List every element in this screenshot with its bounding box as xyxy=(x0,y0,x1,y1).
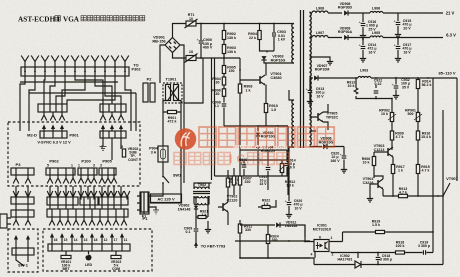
wire C911 branch xyxy=(267,150,269,190)
svg-text:RB-156: RB-156 xyxy=(152,40,165,44)
svg-text:330: 330 xyxy=(272,238,278,242)
capacitor C908 0.1 xyxy=(222,104,227,106)
transistor VT902 C2120 xyxy=(223,202,228,212)
row2 pin arrows group a xyxy=(13,191,31,200)
svg-text:17: 17 xyxy=(114,238,118,242)
junction dot VD910 xyxy=(257,125,259,127)
connector P1 header xyxy=(140,192,149,214)
label VD902 1N4148 xyxy=(178,204,191,212)
ground VT904 emitter xyxy=(367,196,373,202)
svg-text:LED: LED xyxy=(85,263,93,267)
svg-text:15.4 k: 15.4 k xyxy=(421,135,431,139)
label R906 130 xyxy=(212,89,221,97)
wire feedback winding ends xyxy=(289,90,294,195)
wire F1 to switch xyxy=(148,192,163,210)
label C932 100u 35V xyxy=(401,78,410,89)
wire C918 stub xyxy=(377,253,379,265)
connector P903 pin arrows xyxy=(101,125,123,132)
diode VD906 RGP10G xyxy=(323,144,327,149)
resistor R909 4.7k xyxy=(390,131,393,140)
dashed enclosure monitor board xyxy=(8,122,140,186)
label C917 470u 16V xyxy=(402,43,411,54)
svg-text:56.2 k: 56.2 k xyxy=(422,83,432,87)
resistor R924 330 xyxy=(266,235,269,244)
wire R925 column xyxy=(233,168,235,195)
svg-text:6: 6 xyxy=(319,236,321,240)
svg-text:1.5 k: 1.5 k xyxy=(372,223,380,227)
label VR103 5k COM xyxy=(111,260,122,271)
optocoupler internals xyxy=(316,242,328,250)
capacitor C916 1000u 25V xyxy=(359,20,366,26)
label R908 1k xyxy=(244,85,253,93)
transformer T901 secondary winding xyxy=(310,12,312,145)
ground under C920 xyxy=(341,167,347,173)
wire AC 220V line xyxy=(150,192,181,203)
wire R921 links xyxy=(196,216,208,218)
capacitor C932 100u 35V xyxy=(392,82,399,88)
capacitor C913 100u 16V xyxy=(306,87,313,93)
svg-text:TIP32C: TIP32C xyxy=(326,115,339,119)
label R916 15.4k xyxy=(421,132,431,140)
label IC902 HA17431 xyxy=(338,254,353,262)
wire R916 drop xyxy=(417,130,419,160)
wire VT905 connections xyxy=(310,104,329,130)
resistor R916 15.4k xyxy=(416,131,419,140)
svg-text:10: 10 xyxy=(189,50,193,54)
wire RP912 branch xyxy=(281,160,283,176)
svg-text:P302: P302 xyxy=(132,68,141,72)
wire R915 drop xyxy=(417,160,419,196)
svg-text:MCT3201X: MCT3201X xyxy=(313,227,332,231)
RP902 wiper arrow xyxy=(388,114,396,120)
svg-text:L907: L907 xyxy=(316,31,324,35)
resistor R904b 130 xyxy=(222,77,225,85)
capacitor C920 22u 160V xyxy=(340,152,347,158)
label R921 1k xyxy=(200,210,208,218)
wire R902 chain xyxy=(223,24,225,59)
label RP912 1.3k xyxy=(285,180,296,188)
svg-text:P901: P901 xyxy=(69,133,79,138)
wire snubber xyxy=(260,24,275,53)
potentiometer RP912 1.3k xyxy=(280,164,283,173)
svg-text:400 V: 400 V xyxy=(203,46,213,50)
label R922 1k xyxy=(262,199,270,207)
svg-text:P3: P3 xyxy=(16,162,22,167)
label VD908 RGP30D xyxy=(338,2,353,10)
callout box AC 220 V xyxy=(151,194,182,203)
svg-text:12: 12 xyxy=(104,238,108,242)
svg-text:16 V: 16 V xyxy=(316,94,324,98)
inductor L908 xyxy=(312,11,328,13)
wire P1 pins xyxy=(137,192,144,214)
wire DC+ rail xyxy=(173,24,295,38)
ground under C916 xyxy=(360,33,366,39)
svg-text:33: 33 xyxy=(228,180,232,184)
connector header right xyxy=(100,104,126,112)
watermark dzsc logo and text xyxy=(174,127,334,166)
wire R911 branch xyxy=(235,220,310,258)
capacitor C918 3300p xyxy=(376,257,381,259)
wire primary return verticals xyxy=(212,58,241,180)
svg-text:3 300 p: 3 300 p xyxy=(380,258,393,262)
connector P903 xyxy=(100,131,126,138)
svg-text:16 V: 16 V xyxy=(368,50,376,54)
wire divider column xyxy=(224,53,240,126)
wire IC902 connections xyxy=(348,264,372,266)
capacitor C920 470u 10V xyxy=(285,199,292,205)
wire P901 internal feeds xyxy=(20,128,136,131)
fuse symbol in P904 xyxy=(161,146,166,162)
wire VD906 path xyxy=(310,147,345,168)
svg-text:4.7 k: 4.7 k xyxy=(422,169,430,173)
chassis ground at F1 xyxy=(153,210,159,214)
svg-text:RGP30D: RGP30D xyxy=(338,6,353,10)
wire filter to fuse xyxy=(163,101,181,169)
connector P2 pin b xyxy=(150,83,155,102)
label R904 130 xyxy=(212,77,221,85)
label RP901 500 xyxy=(405,109,416,117)
label R910 1.5 xyxy=(269,104,278,112)
svg-text:1.5: 1.5 xyxy=(271,108,276,112)
connector header C3 xyxy=(99,197,128,205)
junction dots DC rails xyxy=(200,23,275,59)
svg-text:HA17431: HA17431 xyxy=(338,258,353,262)
label VD901 RB-156 xyxy=(152,36,165,44)
diode VD903 RGP10G xyxy=(261,56,266,60)
capacitor C903 xyxy=(273,32,275,37)
resistor R908 1k xyxy=(238,84,241,93)
label C913 100u 16V xyxy=(315,87,324,98)
diode VD907 RGP10M xyxy=(314,75,318,80)
svg-text:0.1: 0.1 xyxy=(186,230,191,234)
svg-text:1 k: 1 k xyxy=(398,169,403,173)
wire VT903 wiring xyxy=(374,152,393,196)
label VT904 C3228 xyxy=(363,177,374,185)
svg-text:4.7 k: 4.7 k xyxy=(396,135,404,139)
label R909 4.7k xyxy=(395,132,404,140)
wire DC- rail xyxy=(173,53,241,59)
svg-text:WWW.dzsc.com: WWW.dzsc.com xyxy=(233,145,288,152)
svg-text:RGP10G: RGP10G xyxy=(261,135,276,139)
wire C900 leads xyxy=(200,24,202,59)
potentiometer VR101 xyxy=(61,255,71,258)
wire C914 drop xyxy=(362,38,364,57)
label R924 330 xyxy=(270,235,278,243)
connector header B1 xyxy=(11,197,34,204)
svg-text:21 V: 21 V xyxy=(446,11,455,16)
junction dots feedback xyxy=(239,195,444,265)
wire right rail C x457 xyxy=(456,78,458,181)
resistor R910 1.5 xyxy=(264,104,267,113)
transformer T902 secondary xyxy=(194,196,209,198)
potentiometer RP901 500 xyxy=(416,113,419,122)
wire snubber to collector xyxy=(264,60,266,63)
svg-text:33 V: 33 V xyxy=(259,182,267,186)
svg-text:I: I xyxy=(229,152,232,166)
capacitor C909 0.1 xyxy=(194,229,199,231)
wire primary return path xyxy=(239,126,241,207)
svg-text:18: 18 xyxy=(94,238,98,242)
resistor R905 150 xyxy=(222,66,225,74)
svg-text:P902: P902 xyxy=(49,159,59,164)
wire emitter down xyxy=(265,113,267,127)
wire VD910 chain xyxy=(257,126,259,160)
wire right rail A x433 xyxy=(432,78,434,253)
resistor R921 1k xyxy=(198,216,206,219)
label C915 470u 20V xyxy=(402,19,411,30)
wire 6.3V rail xyxy=(310,37,444,39)
potentiometer VR202 xyxy=(122,149,125,157)
svg-text:1N4148: 1N4148 xyxy=(178,207,191,211)
label C922 0.22 xyxy=(374,79,383,87)
label R919 1.5k xyxy=(372,220,381,228)
label VD906 RGP10G xyxy=(319,137,334,145)
svg-text:SW-1: SW-1 xyxy=(18,263,29,268)
label C913 30u xyxy=(287,159,295,170)
inductor L903 xyxy=(358,76,371,78)
junction dots B+ rail xyxy=(375,77,429,79)
label R925 xyxy=(228,177,232,184)
capacitor C914 30u xyxy=(285,163,290,165)
wire bottom left rail xyxy=(240,258,314,265)
resistor R919 1.5k xyxy=(376,230,385,233)
resistor R907 330 xyxy=(238,176,241,185)
bus pin dots xyxy=(24,71,126,73)
bus pin arrows xyxy=(21,56,129,72)
resistor R915 4.7k xyxy=(416,165,419,174)
svg-text:20 V: 20 V xyxy=(403,26,411,30)
thermistor RT2 xyxy=(185,54,198,63)
label C918 3300p xyxy=(380,254,393,262)
capacitor C919 3300p xyxy=(423,250,425,255)
label C919 3300p xyxy=(418,241,431,249)
optocoupler IC901 MCT3201X body xyxy=(314,240,329,252)
label C911 10u 33V xyxy=(259,175,267,186)
wire B+ rail xyxy=(310,77,458,79)
label C916 1000u 25V xyxy=(366,20,378,31)
label C900 130u 400V xyxy=(203,38,213,50)
header right pin arrows xyxy=(100,112,124,121)
svg-text:10 k: 10 k xyxy=(363,161,370,165)
switch SW-1 box xyxy=(12,248,34,255)
resistor R911 330 xyxy=(238,224,241,233)
label VR202 SUB TP-CONT xyxy=(128,147,139,162)
wire C916 drop xyxy=(362,13,364,33)
label R923 3.9 xyxy=(230,178,238,186)
wire mesh horizontals xyxy=(240,160,288,176)
connector P905 xyxy=(99,168,116,175)
wire mid mesh a xyxy=(240,126,288,195)
resistor R906 10k xyxy=(372,157,375,166)
connector P3 xyxy=(11,168,34,175)
SW-1 pin arrows xyxy=(14,235,30,248)
wire C913 drop xyxy=(309,78,311,99)
capacitor C911 10u 33V xyxy=(266,167,271,169)
label VT905 TIP32C xyxy=(326,112,339,120)
transformer T902 primary xyxy=(194,187,209,189)
connector header left xyxy=(38,104,67,112)
P3 pin arrows xyxy=(13,175,31,184)
svg-text:3: 3 xyxy=(100,164,102,168)
svg-text:13: 13 xyxy=(84,238,88,242)
transistor VT903 C1213 xyxy=(388,147,393,157)
svg-text:COM: COM xyxy=(112,267,120,271)
wire VT904 wiring xyxy=(370,176,383,196)
wire R924 links xyxy=(267,225,269,258)
label R914 56.2k xyxy=(422,80,432,88)
wire mesh h2 xyxy=(240,126,288,150)
capacitor C922 0.22 xyxy=(374,91,379,93)
svg-text:T1901: T1901 xyxy=(166,78,178,82)
svg-text:VGA: VGA xyxy=(63,16,80,24)
label R901 472k xyxy=(168,116,177,124)
svg-text:330: 330 xyxy=(245,228,251,232)
svg-text:10 k: 10 k xyxy=(348,84,355,88)
svg-text:P100: P100 xyxy=(81,159,91,164)
dashed enclosure front panel xyxy=(43,229,152,271)
P901 pin arrows xyxy=(42,125,64,132)
diode VD910 RGP10G xyxy=(256,133,260,136)
label RP902 10k xyxy=(379,109,390,117)
bridge rectifier VD901 RB-156 xyxy=(165,38,180,53)
wire center tap xyxy=(310,57,331,59)
label R911 330 xyxy=(244,225,252,233)
resistor R922 1k xyxy=(262,206,270,209)
connector header B2 xyxy=(11,210,34,217)
svg-text:AST-ECDH I: AST-ECDH I xyxy=(18,16,60,24)
svg-text:150: 150 xyxy=(229,69,235,73)
fuse P904 box xyxy=(158,146,168,162)
dashed enclosure SW-1 xyxy=(8,229,38,272)
svg-text:1 kV: 1 kV xyxy=(278,38,286,42)
inductor L905 xyxy=(370,36,383,38)
label C920 22u 160V xyxy=(330,152,340,163)
svg-text:BRT: BRT xyxy=(62,267,70,271)
label R918 100k xyxy=(396,241,405,249)
label VD912 1N4148 xyxy=(285,221,297,229)
transistor VT904 C3228 xyxy=(378,179,383,189)
wire R909 drop xyxy=(391,130,393,150)
svg-text:C: C xyxy=(237,152,246,166)
label VT903 C1213 xyxy=(374,144,385,152)
ground under T902 xyxy=(205,227,211,233)
svg-text:11: 11 xyxy=(124,238,128,242)
P902 pin arrows xyxy=(47,175,76,184)
svg-text:AC 220 V: AC 220 V xyxy=(157,197,175,202)
arrow to FBT xyxy=(195,243,198,248)
resistor R901 472k xyxy=(168,110,177,113)
label VT901 C3680 xyxy=(270,72,282,80)
row2 down arrows b xyxy=(49,217,127,226)
svg-text:1 k: 1 k xyxy=(202,213,207,217)
label VD909 RGP30A xyxy=(338,27,353,35)
chassis ground P903 xyxy=(100,147,107,151)
label VD903 RGP10G xyxy=(271,55,286,63)
header left pin arrows xyxy=(41,112,65,121)
LED indicator xyxy=(86,255,92,261)
svg-text:M2-D: M2-D xyxy=(27,133,37,138)
junction dots drive xyxy=(392,195,439,197)
connector header C1 xyxy=(47,197,78,205)
wire feedback bottom y264.5 xyxy=(240,258,443,265)
svg-text:130 k: 130 k xyxy=(227,50,237,54)
wire C917 drop xyxy=(397,38,399,57)
svg-text:TO FBT-T703: TO FBT-T703 xyxy=(201,244,226,249)
potentiometer VR103 xyxy=(111,255,121,258)
inductor L906 xyxy=(370,11,383,13)
wire C920 drop xyxy=(288,195,290,212)
wire fuse to switch xyxy=(163,146,181,172)
transformer core xyxy=(301,10,304,148)
connector P901 xyxy=(40,131,67,138)
wire B1-B2 links xyxy=(16,186,28,210)
resistor R925 330 xyxy=(232,176,235,185)
label R913 4.7k xyxy=(399,187,408,195)
label C903 0.01 1kV xyxy=(277,30,286,42)
inductor L907 xyxy=(312,36,328,38)
wire staircase from bus to headers xyxy=(20,76,136,128)
label IC901 MCT3201X xyxy=(313,224,332,232)
shunt regulator IC902 symbol xyxy=(355,261,361,268)
svg-text:500: 500 xyxy=(408,112,414,116)
P100 pin arrows xyxy=(78,175,97,184)
diode VD909 RGP30A xyxy=(344,35,348,40)
svg-text:1.3 k: 1.3 k xyxy=(286,184,294,188)
connector F1 xyxy=(141,192,148,212)
T1901 winding b xyxy=(174,85,179,101)
svg-text:1: 1 xyxy=(331,236,333,240)
transformer T902 core xyxy=(193,192,210,194)
svg-text:85~110 V: 85~110 V xyxy=(438,71,455,76)
wire 21V rail xyxy=(310,12,444,14)
wire secondary lower taps xyxy=(310,130,317,132)
svg-text:L905: L905 xyxy=(372,31,380,35)
svg-text:RGP30A: RGP30A xyxy=(338,30,353,34)
wire C914 column xyxy=(286,150,288,176)
svg-text:6.3 V: 6.3 V xyxy=(446,33,456,38)
svg-text:P905: P905 xyxy=(102,159,112,164)
label VD907 RGP10M xyxy=(315,64,330,72)
wire RP901 branch xyxy=(417,112,419,131)
resistor R923 3.9 xyxy=(226,178,229,187)
svg-text:3: 3 xyxy=(93,164,95,168)
wire R901 bypass xyxy=(163,111,181,113)
wire B+ branch down x356 xyxy=(356,78,392,99)
junction dots control xyxy=(355,77,419,113)
resistor R918 100k xyxy=(396,251,405,254)
ground under C913 xyxy=(307,99,313,105)
wire edge connector xyxy=(7,218,11,224)
svg-text:4.7 k: 4.7 k xyxy=(399,191,407,195)
svg-text:RGP10M: RGP10M xyxy=(315,68,330,72)
svg-text:472 k: 472 k xyxy=(168,120,177,124)
resistor R913 4.7k xyxy=(399,194,408,197)
svg-text:L908: L908 xyxy=(316,7,324,11)
svg-text:1: 1 xyxy=(78,164,80,168)
resistor R917 1k xyxy=(391,165,394,174)
connector header C4 xyxy=(47,209,128,217)
svg-text:35 V: 35 V xyxy=(402,85,410,89)
diode VD908 RGP30D xyxy=(344,10,348,15)
resistor R904 xyxy=(258,31,261,40)
ground under C914 xyxy=(360,56,366,62)
ground under C917 xyxy=(395,56,401,62)
diode VD902 1N4148 xyxy=(194,206,198,209)
label VD910 RGP10G xyxy=(261,131,276,139)
transformer T901 primary winding xyxy=(292,24,294,64)
potentiometer RP902 10k xyxy=(390,113,393,122)
wire R923 links xyxy=(227,170,229,198)
